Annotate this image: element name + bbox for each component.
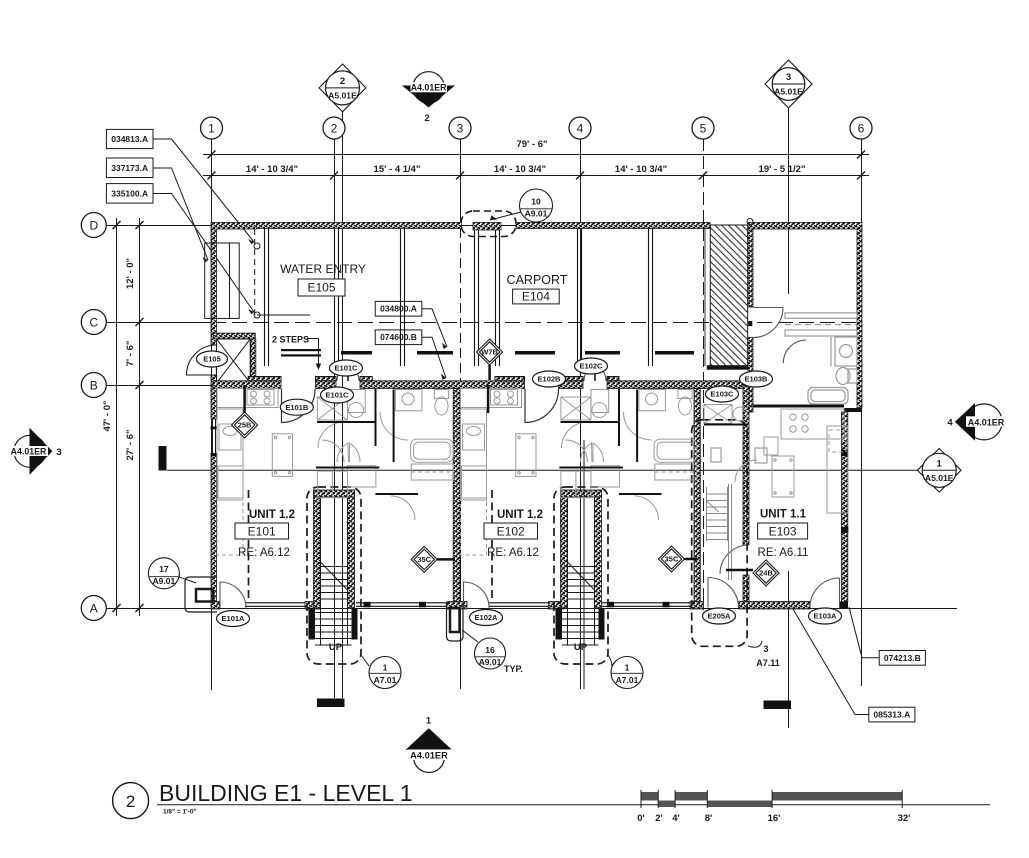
svg-text:79' - 6": 79' - 6" bbox=[516, 139, 547, 150]
svg-text:14' - 10 3/4": 14' - 10 3/4" bbox=[246, 164, 298, 175]
svg-text:E102B: E102B bbox=[538, 375, 562, 384]
svg-text:337173.A: 337173.A bbox=[111, 163, 148, 173]
svg-text:2': 2' bbox=[655, 813, 663, 824]
svg-text:27' - 6": 27' - 6" bbox=[125, 429, 136, 460]
svg-text:47' - 0": 47' - 0" bbox=[102, 400, 113, 431]
svg-text:E104: E104 bbox=[522, 290, 550, 304]
svg-text:UNIT 1.1: UNIT 1.1 bbox=[760, 509, 807, 521]
svg-text:E103A: E103A bbox=[814, 612, 838, 621]
svg-text:UNIT 1.2: UNIT 1.2 bbox=[249, 509, 295, 521]
svg-text:E101: E101 bbox=[248, 525, 276, 539]
svg-text:074213.B: 074213.B bbox=[884, 653, 921, 663]
svg-text:W7B: W7B bbox=[481, 348, 498, 357]
svg-text:A4.01ER: A4.01ER bbox=[11, 447, 47, 457]
svg-text:35C: 35C bbox=[665, 555, 679, 564]
svg-text:RE: A6.11: RE: A6.11 bbox=[758, 547, 809, 559]
svg-text:2: 2 bbox=[340, 76, 345, 87]
svg-text:TYP.: TYP. bbox=[504, 664, 523, 674]
svg-text:RE: A6.12: RE: A6.12 bbox=[238, 547, 290, 559]
svg-text:24B: 24B bbox=[759, 569, 773, 578]
svg-text:4': 4' bbox=[672, 813, 680, 824]
svg-text:CARPORT: CARPORT bbox=[507, 273, 568, 287]
svg-text:19' - 5 1/2": 19' - 5 1/2" bbox=[759, 164, 806, 175]
svg-text:35C: 35C bbox=[417, 555, 431, 564]
svg-text:1: 1 bbox=[625, 663, 630, 673]
svg-text:UNIT 1.2: UNIT 1.2 bbox=[497, 509, 543, 521]
svg-text:32': 32' bbox=[898, 813, 911, 824]
svg-text:A9.01: A9.01 bbox=[525, 209, 548, 219]
svg-text:25B: 25B bbox=[238, 421, 252, 430]
svg-text:3: 3 bbox=[763, 644, 768, 654]
svg-text:E101C: E101C bbox=[326, 391, 350, 400]
svg-text:A: A bbox=[90, 602, 98, 616]
svg-text:RE: A6.12: RE: A6.12 bbox=[487, 547, 539, 559]
svg-text:1: 1 bbox=[383, 663, 388, 673]
svg-text:16': 16' bbox=[768, 813, 781, 824]
svg-text:E103: E103 bbox=[769, 525, 797, 539]
svg-text:A5.01E: A5.01E bbox=[328, 91, 357, 101]
svg-text:E102: E102 bbox=[497, 525, 525, 539]
svg-text:1: 1 bbox=[208, 122, 215, 136]
svg-text:6: 6 bbox=[858, 122, 865, 136]
svg-text:A9.01: A9.01 bbox=[479, 657, 502, 667]
svg-text:WATER ENTRY: WATER ENTRY bbox=[280, 262, 366, 276]
svg-text:E105: E105 bbox=[307, 281, 335, 295]
svg-text:5: 5 bbox=[700, 122, 707, 136]
svg-text:E102A: E102A bbox=[475, 613, 499, 622]
svg-text:074600.B: 074600.B bbox=[380, 332, 417, 342]
svg-text:15' - 4 1/4": 15' - 4 1/4" bbox=[374, 164, 421, 175]
svg-text:2: 2 bbox=[331, 122, 338, 136]
svg-text:UP: UP bbox=[574, 642, 588, 653]
svg-text:2: 2 bbox=[126, 792, 135, 811]
svg-text:4: 4 bbox=[577, 122, 584, 136]
svg-text:UP: UP bbox=[329, 642, 343, 653]
svg-text:7' - 6": 7' - 6" bbox=[125, 341, 136, 367]
svg-text:A4.01ER: A4.01ER bbox=[410, 751, 448, 761]
svg-text:A4.01ER: A4.01ER bbox=[968, 417, 1005, 427]
svg-text:12' - 0": 12' - 0" bbox=[125, 258, 136, 289]
svg-text:14' - 10 3/4": 14' - 10 3/4" bbox=[615, 164, 667, 175]
svg-text:3: 3 bbox=[457, 122, 464, 136]
svg-text:2: 2 bbox=[424, 113, 429, 124]
svg-text:0': 0' bbox=[637, 813, 645, 824]
svg-text:16: 16 bbox=[485, 645, 495, 655]
svg-text:034800.A: 034800.A bbox=[380, 304, 417, 314]
svg-text:10: 10 bbox=[531, 197, 541, 207]
svg-text:335100.A: 335100.A bbox=[111, 189, 148, 199]
svg-text:085313.A: 085313.A bbox=[873, 710, 910, 720]
svg-text:A7.01: A7.01 bbox=[616, 675, 639, 685]
svg-text:1: 1 bbox=[937, 458, 943, 469]
svg-text:A9.01: A9.01 bbox=[153, 576, 176, 586]
svg-text:A5.01E: A5.01E bbox=[774, 87, 803, 97]
svg-text:E102C: E102C bbox=[580, 362, 604, 371]
svg-text:E103C: E103C bbox=[711, 390, 735, 399]
svg-text:17: 17 bbox=[159, 564, 169, 574]
svg-text:E101A: E101A bbox=[222, 614, 246, 623]
svg-text:1: 1 bbox=[426, 716, 432, 727]
svg-text:A4.01ER: A4.01ER bbox=[411, 83, 447, 93]
svg-text:2 STEPS: 2 STEPS bbox=[272, 335, 309, 345]
svg-text:E101C: E101C bbox=[335, 364, 359, 373]
svg-text:A5.01E: A5.01E bbox=[925, 473, 954, 483]
svg-text:B: B bbox=[90, 379, 98, 393]
svg-text:E103B: E103B bbox=[745, 375, 769, 384]
svg-text:C: C bbox=[89, 316, 98, 330]
svg-text:E105: E105 bbox=[203, 355, 221, 364]
svg-text:1/8" = 1'-0": 1/8" = 1'-0" bbox=[163, 809, 197, 816]
svg-text:034813.A: 034813.A bbox=[111, 134, 148, 144]
svg-text:3: 3 bbox=[786, 72, 791, 83]
svg-text:3: 3 bbox=[56, 447, 61, 458]
svg-text:E205A: E205A bbox=[708, 612, 732, 621]
svg-text:D: D bbox=[89, 219, 98, 233]
svg-text:A7.11: A7.11 bbox=[756, 658, 780, 668]
svg-text:14' - 10 3/4": 14' - 10 3/4" bbox=[494, 164, 546, 175]
svg-text:BUILDING E1 - LEVEL 1: BUILDING E1 - LEVEL 1 bbox=[159, 780, 413, 806]
svg-text:8': 8' bbox=[705, 813, 713, 824]
svg-text:E101B: E101B bbox=[285, 403, 309, 412]
svg-text:A7.01: A7.01 bbox=[374, 675, 397, 685]
svg-text:4: 4 bbox=[947, 417, 953, 428]
